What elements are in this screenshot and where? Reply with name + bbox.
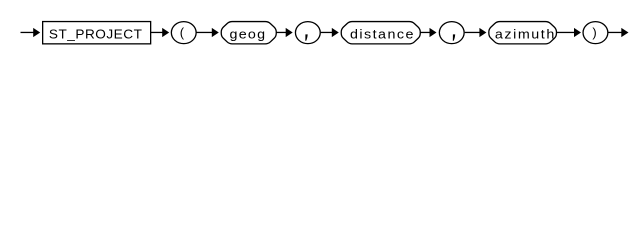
comma label 1 (305, 34, 307, 40)
start wire (21, 32, 34, 33)
svg-text:(: ( (180, 25, 185, 40)
) terminal circle (583, 22, 608, 44)
comma label 2 (453, 34, 455, 40)
svg-text:geog: geog (230, 27, 266, 41)
end wire (608, 32, 623, 33)
geog parameter box (221, 22, 276, 44)
ST_PROJECT terminal box (43, 22, 151, 44)
wire (277, 32, 287, 33)
svg-text:distance: distance (350, 27, 413, 41)
svg-text:azimuth: azimuth (495, 27, 554, 41)
comma terminal circle 2 (439, 22, 464, 44)
arrowhead (332, 28, 339, 37)
wire (196, 32, 213, 33)
arrowhead (162, 28, 169, 37)
distance parameter box (341, 22, 420, 44)
wire (151, 32, 163, 33)
wire (557, 32, 575, 33)
arrowhead (212, 28, 219, 37)
arrowhead (479, 28, 486, 37)
svg-text:): ) (592, 25, 596, 40)
( terminal circle (171, 22, 196, 44)
svg-text:ST_PROJECT: ST_PROJECT (49, 27, 142, 41)
end arrowhead (621, 28, 628, 37)
wire (465, 32, 481, 33)
wire (321, 32, 333, 33)
azimuth parameter box (489, 22, 557, 44)
comma terminal circle 1 (295, 22, 320, 44)
start arrowhead (33, 28, 40, 37)
arrowhead (430, 28, 437, 37)
arrowhead (574, 28, 581, 37)
arrowhead (286, 28, 293, 37)
wire (420, 32, 430, 33)
